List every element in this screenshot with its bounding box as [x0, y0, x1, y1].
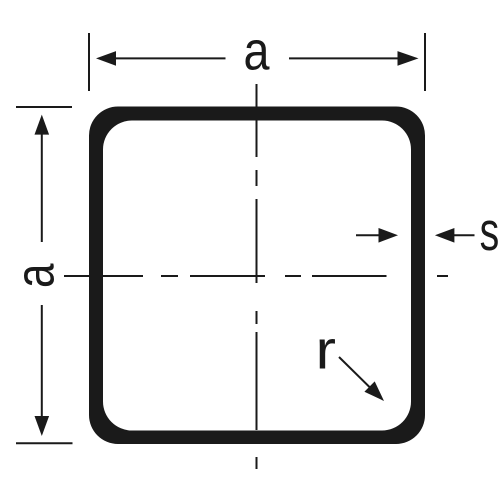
r arrowhead	[364, 381, 384, 401]
r leader line	[339, 357, 371, 389]
vertical centerline	[256, 84, 258, 469]
s dimension outside arrow line	[454, 234, 475, 236]
extension line left-bottom	[16, 442, 73, 444]
s dimension outside arrowhead	[435, 228, 455, 243]
top dimension arrow left	[96, 51, 116, 66]
svg-text:a: a	[4, 263, 66, 288]
left dimension line upper segment	[41, 132, 43, 242]
extension line top-left	[88, 33, 90, 91]
left dimension arrow up	[35, 115, 50, 135]
left dimension line lower segment	[41, 305, 43, 419]
horizontal centerline	[64, 275, 448, 277]
svg-text:r: r	[316, 319, 337, 381]
extension line left-top	[16, 106, 72, 108]
s dimension inside arrow line	[356, 234, 380, 236]
left dimension arrow down	[35, 416, 50, 436]
extension line top-right	[424, 33, 426, 91]
square hollow section profile	[89, 107, 425, 445]
svg-text:a: a	[244, 20, 270, 82]
s dimension inside arrowhead	[379, 228, 399, 243]
svg-text:s: s	[480, 200, 500, 262]
top dimension line right segment	[289, 57, 399, 59]
top dimension line left segment	[114, 57, 226, 59]
top dimension arrow right	[398, 51, 419, 66]
